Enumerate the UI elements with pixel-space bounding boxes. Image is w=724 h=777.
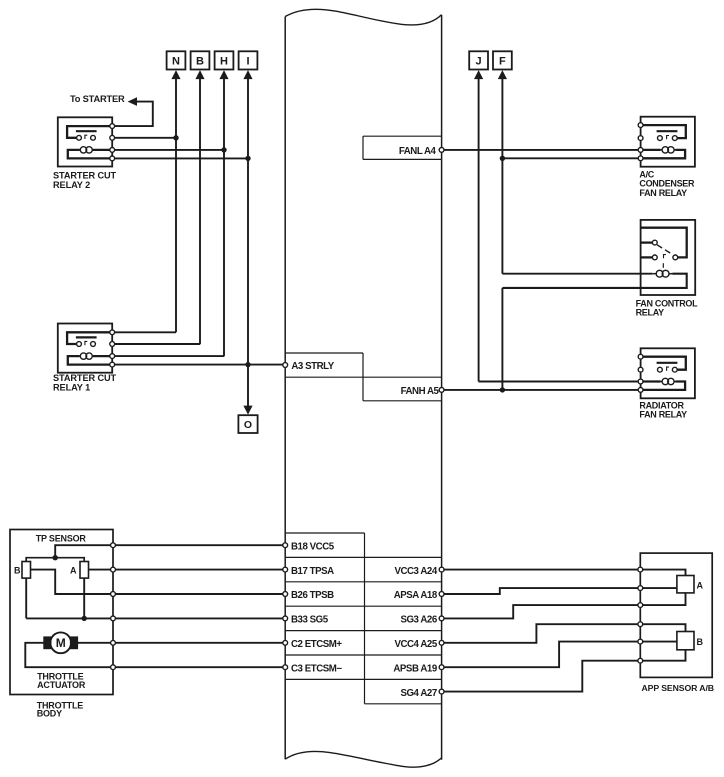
svg-text:C3 ETCSM−: C3 ETCSM− (291, 663, 342, 674)
svg-text:RELAY 1: RELAY 1 (53, 382, 90, 392)
svg-text:FANH A5: FANH A5 (401, 386, 440, 397)
svg-text:TP SENSOR: TP SENSOR (36, 533, 87, 543)
svg-text:APP SENSOR A/B: APP SENSOR A/B (642, 683, 714, 693)
svg-text:FANL A4: FANL A4 (399, 146, 437, 157)
svg-text:M: M (56, 636, 66, 650)
svg-text:A3 STRLY: A3 STRLY (291, 361, 334, 372)
svg-text:APSA A18: APSA A18 (394, 590, 438, 601)
svg-text:SG4 A27: SG4 A27 (400, 688, 436, 699)
svg-text:A: A (70, 565, 77, 575)
svg-text:STARTER CUT: STARTER CUT (53, 171, 117, 181)
svg-text:VCC3 A24: VCC3 A24 (394, 566, 437, 577)
svg-text:ACTUATOR: ACTUATOR (37, 680, 86, 690)
svg-text:H: H (220, 55, 228, 67)
svg-text:A: A (697, 580, 704, 590)
svg-text:O: O (244, 419, 252, 431)
svg-text:I: I (246, 55, 249, 67)
svg-text:C2 ETCSM+: C2 ETCSM+ (291, 639, 342, 650)
svg-text:RELAY: RELAY (636, 308, 664, 318)
svg-text:B26 TPSB: B26 TPSB (291, 590, 334, 601)
svg-text:N: N (172, 55, 180, 67)
svg-text:J: J (476, 55, 482, 67)
svg-text:B17 TPSA: B17 TPSA (291, 566, 334, 577)
svg-text:BODY: BODY (37, 709, 62, 719)
svg-text:F: F (499, 55, 506, 67)
svg-text:B: B (697, 637, 704, 647)
svg-text:To STARTER: To STARTER (70, 94, 125, 104)
svg-text:STARTER CUT: STARTER CUT (53, 373, 117, 383)
svg-text:B: B (196, 55, 204, 67)
svg-text:FAN RELAY: FAN RELAY (639, 409, 687, 419)
svg-text:B: B (14, 565, 21, 575)
svg-text:B33 SG5: B33 SG5 (291, 615, 329, 626)
svg-text:FAN RELAY: FAN RELAY (639, 188, 687, 198)
svg-text:RELAY 2: RELAY 2 (53, 180, 90, 190)
svg-text:B18 VCC5: B18 VCC5 (291, 541, 335, 552)
svg-text:APSB A19: APSB A19 (393, 663, 437, 674)
svg-text:VCC4 A25: VCC4 A25 (394, 639, 437, 650)
svg-text:SG3 A26: SG3 A26 (400, 615, 437, 626)
